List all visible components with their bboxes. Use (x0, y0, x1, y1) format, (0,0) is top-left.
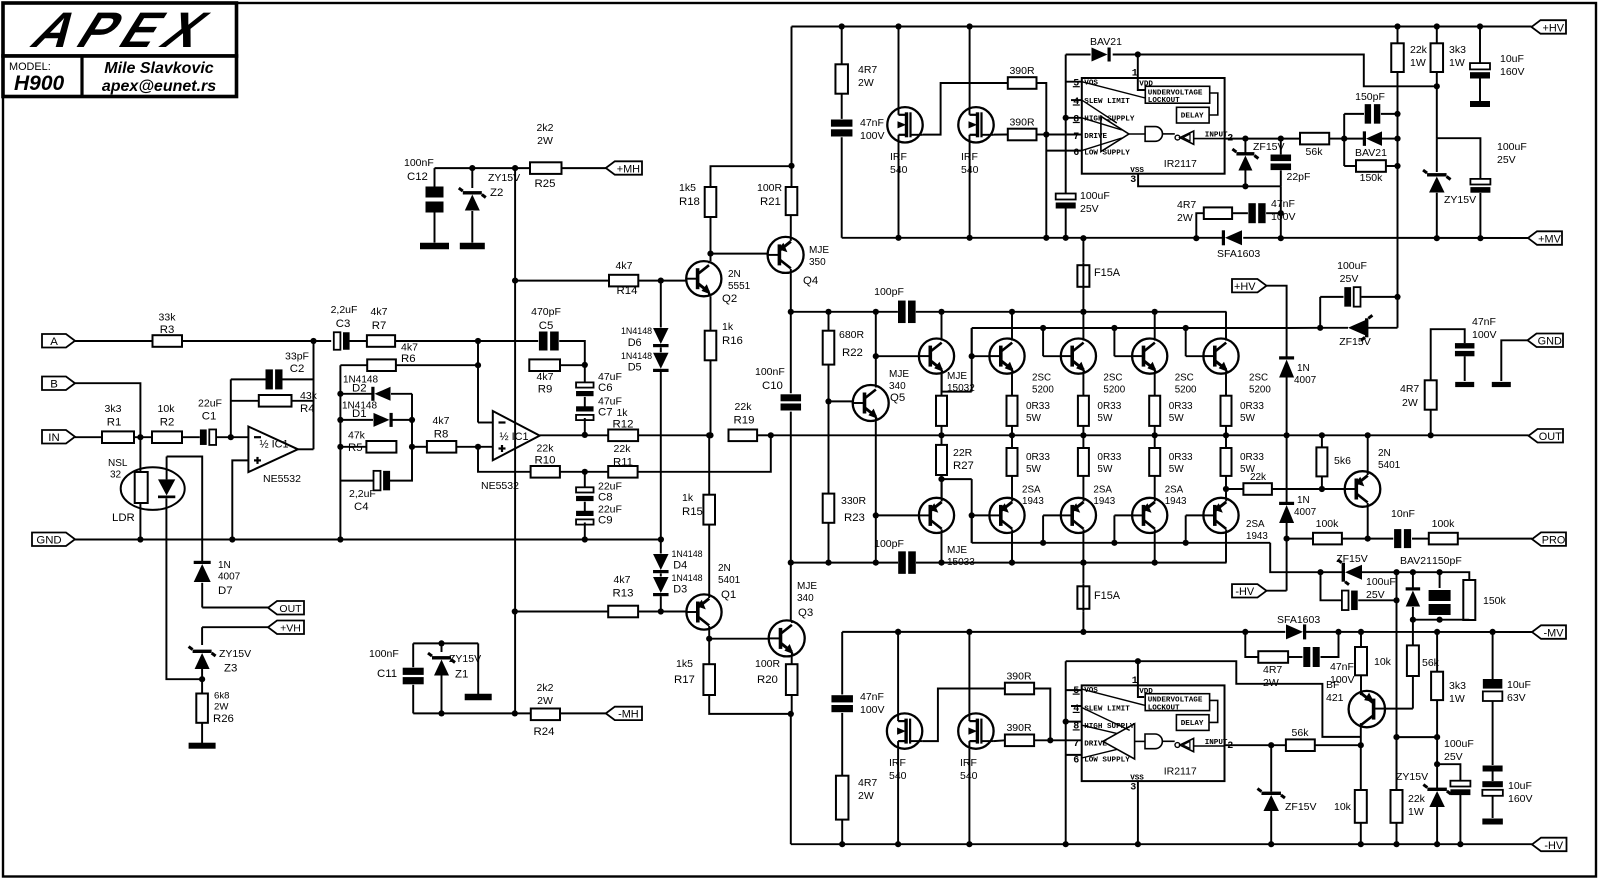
resistor R22 (823, 331, 835, 365)
node 47nF-col upper (1278, 210, 1284, 216)
svg-text:4k7: 4k7 (616, 260, 633, 272)
svg-text:5W: 5W (1097, 464, 1113, 475)
wire Q5 base (829, 400, 854, 402)
wire 4R7 top (1431, 329, 1465, 380)
capacitor C3 (334, 332, 350, 350)
wire +HV rail (792, 26, 1532, 28)
label D2 (343, 375, 378, 395)
svg-text:47nF: 47nF (860, 117, 884, 129)
label 47nF lower-left (860, 691, 885, 716)
svg-text:10uF: 10uF (1500, 53, 1524, 65)
wire Q4 base (711, 253, 768, 255)
node 150pl bottom (1437, 617, 1443, 623)
svg-text:UNDERVOLTAGE: UNDERVOLTAGE (1148, 697, 1203, 705)
label IC1a (259, 439, 288, 451)
svg-text:2N: 2N (1378, 448, 1391, 459)
node bigvert R14 (512, 278, 518, 284)
node pin1 upper (1135, 51, 1141, 57)
wire zf-vss (1244, 171, 1246, 187)
svg-text:390R: 390R (1009, 117, 1035, 129)
label C1 (198, 398, 222, 423)
wire 2SC base rail (972, 327, 1186, 329)
wire Q4 collector (790, 273, 792, 393)
diode D7 (194, 561, 211, 608)
svg-text:apex@eunet.rs: apex@eunet.rs (102, 78, 216, 95)
wire MJE15033 base (876, 514, 919, 516)
wire M3 gate (922, 689, 1005, 742)
end terminal 10uF63 (1483, 766, 1503, 772)
svg-text:1N4148: 1N4148 (621, 326, 652, 336)
svg-text:5200: 5200 (1103, 385, 1125, 396)
label NSL 32 (108, 458, 128, 481)
wire R14 left (515, 280, 609, 282)
label 22k 1W lower (1408, 793, 1426, 818)
wire R20 bottom (791, 695, 793, 714)
end terminal 47nF (1455, 382, 1474, 387)
wire R17 top (708, 639, 710, 665)
label 10uF 160V upper (1500, 53, 1525, 78)
node BF421C-input2 (1358, 742, 1364, 748)
node GND-LDR (137, 536, 143, 542)
wire 100uF mid wire (1320, 296, 1397, 298)
wire 10uF160 bottom (1479, 78, 1481, 101)
svg-text:1W: 1W (1408, 806, 1424, 818)
node Q1C-Q3B (706, 636, 712, 642)
svg-text:2SC: 2SC (1032, 373, 1051, 384)
label 0R33 upper col2 (1026, 401, 1050, 424)
label Q5 (889, 369, 909, 404)
svg-text:1N: 1N (1297, 495, 1310, 506)
wire base jog 2SC #4 (1186, 328, 1204, 356)
terminal +HV mid (1232, 279, 1267, 293)
wire collector col1 (941, 312, 943, 339)
node lower rail col1 (938, 560, 944, 566)
label 150k upper (1360, 172, 1384, 184)
node zy -HV (1434, 841, 1440, 847)
lower pin number 1 (1132, 676, 1138, 687)
wire -HV rail (791, 843, 1532, 845)
node ext-100uF (1317, 325, 1323, 331)
wire 4R7-47nF lower (1288, 656, 1302, 658)
node rail312-R22 (825, 309, 831, 315)
zener ZY15V bottom (1423, 785, 1451, 845)
svg-text:5: 5 (1073, 79, 1079, 90)
svg-text:8: 8 (1073, 722, 1079, 733)
label 390R #3 (1006, 671, 1032, 683)
svg-text:4007: 4007 (218, 572, 241, 583)
svg-text:SLEW LIMIT: SLEW LIMIT (1084, 705, 1130, 713)
wire 10uF63 stub (1492, 701, 1494, 765)
wire +MV rail right (1243, 237, 1528, 239)
wire 150p-150k (1440, 572, 1470, 580)
resistor R25 (530, 162, 562, 174)
wire VSS upper (1138, 174, 1281, 187)
transistor MJE15032 (919, 339, 954, 374)
svg-text:1W: 1W (1449, 57, 1465, 69)
svg-text:C9: C9 (598, 515, 613, 527)
end terminal GND right (1492, 382, 1511, 387)
wire baserail ext lower (1270, 543, 1320, 572)
svg-text:R20: R20 (757, 674, 778, 686)
wire pin5 lower (1066, 689, 1082, 691)
svg-text:BAV21: BAV21 (1400, 555, 1432, 567)
wire M3 drain (897, 632, 899, 714)
svg-text:100V: 100V (860, 130, 885, 142)
wire PRO right (1458, 538, 1532, 540)
svg-text:5W: 5W (1026, 413, 1042, 424)
resistor R14 (609, 275, 638, 287)
wire base jog 2SA #1 (972, 515, 990, 542)
wire INPUT2 lower (1225, 744, 1286, 746)
resistor R10 (531, 466, 560, 478)
svg-text:ZF15V: ZF15V (1339, 336, 1371, 348)
upper pin number 3 (1130, 175, 1136, 186)
capacitor C10 (781, 394, 802, 410)
svg-text:150pF: 150pF (1355, 91, 1385, 103)
node drive-MV (1043, 235, 1049, 241)
wire bracket lower (1065, 661, 1067, 844)
label 0R33 upper col3 (1097, 401, 1121, 424)
svg-text:D2: D2 (352, 383, 367, 395)
diode D1 (374, 413, 393, 427)
svg-text:5551: 5551 (728, 281, 751, 292)
fuse F15A upper (1077, 238, 1089, 312)
node base rail #2 (1040, 325, 1046, 331)
svg-text:R10: R10 (535, 455, 556, 467)
svg-text:1k5: 1k5 (676, 658, 693, 670)
wire 5k6 top (1321, 435, 1323, 447)
node zfll -HV (1268, 841, 1274, 847)
svg-text:C7: C7 (598, 407, 613, 419)
svg-text:10k: 10k (158, 403, 176, 415)
svg-text:10uF: 10uF (1507, 679, 1531, 691)
svg-text:NE5532: NE5532 (263, 473, 301, 485)
svg-text:47nF: 47nF (1472, 316, 1496, 328)
svg-text:150pF: 150pF (1432, 555, 1462, 567)
node R6-minusIC1b (475, 362, 481, 368)
svg-text:0R33: 0R33 (1026, 401, 1050, 412)
svg-text:56k: 56k (1292, 727, 1310, 739)
node lower rail col4 (1152, 560, 1158, 566)
svg-text:15033: 15033 (947, 557, 975, 568)
wire 4R7-47nF (841, 94, 843, 119)
resistor R9 (529, 359, 560, 371)
wire R4 right (292, 400, 314, 402)
svg-text:2W: 2W (537, 135, 553, 147)
wire OUT rail (771, 434, 1529, 436)
terminal OUT left (268, 601, 304, 615)
wire R6 left rail (339, 365, 341, 539)
svg-text:2,2uF: 2,2uF (331, 304, 358, 316)
resistor 0R33 upper col2 (1007, 396, 1018, 426)
lower pin number 2 (1227, 741, 1233, 752)
wire M3 source (897, 749, 899, 844)
svg-text:R9: R9 (538, 384, 553, 396)
node 22kcoll-100uFl (1393, 597, 1399, 603)
wire PRO mid3 (1412, 538, 1429, 540)
wire R15-OUT (708, 435, 710, 494)
upper pin text HIGH SUPPLY (1084, 116, 1135, 124)
node base Q2 chain (658, 278, 664, 284)
wire PRO left (1287, 538, 1313, 540)
label IRF540 #2 (961, 151, 979, 176)
svg-text:150k: 150k (1360, 172, 1384, 184)
wire IC1a plus input (232, 460, 248, 539)
label F15A upper (1094, 267, 1121, 279)
wire collector col4 (1154, 312, 1156, 339)
label C4 (349, 488, 376, 513)
svg-text:1: 1 (1132, 676, 1138, 687)
label 10k lower a (1374, 656, 1392, 668)
upper pin number 5 (1073, 79, 1080, 90)
wire collector col2 (1011, 312, 1013, 339)
svg-text:100nF: 100nF (755, 366, 785, 378)
wire zf mid wires (1320, 327, 1397, 329)
wire 3k3l top (1436, 632, 1438, 672)
svg-text:2k2: 2k2 (537, 122, 554, 134)
resistor R15 (703, 495, 715, 525)
node Q5C-15032B (873, 353, 879, 359)
node 22k-BAV21 (1394, 136, 1400, 142)
svg-text:1943: 1943 (1093, 496, 1115, 507)
node HVrail-10uF (1477, 23, 1483, 29)
lower AND gate (1145, 734, 1175, 749)
svg-text:0R33: 0R33 (1240, 401, 1264, 412)
node Z1 bottom (438, 710, 444, 716)
label Q1 (718, 563, 741, 601)
wire pin8 lower (1066, 721, 1082, 723)
upper pin text VDD (1139, 81, 1153, 89)
terminal OUT right (1529, 429, 1564, 443)
wire C4 right (390, 394, 412, 481)
diode BAV21 upper net (1363, 131, 1382, 146)
resistor R16 (705, 331, 717, 361)
label R11 (613, 443, 633, 469)
wire drive drop (1045, 135, 1047, 238)
label BAV21 upper net (1355, 147, 1387, 159)
svg-text:F15A: F15A (1094, 590, 1121, 602)
resistor R18 (705, 187, 717, 217)
capacitor C12 (426, 168, 444, 243)
wire M1 gate (923, 83, 1008, 135)
svg-text:1: 1 (1132, 69, 1138, 80)
title text MODEL: (9, 61, 51, 73)
svg-text:C10: C10 (762, 380, 783, 392)
label R2 (158, 403, 176, 429)
label 0R33 upper col4 (1169, 401, 1193, 424)
wire parallel left riser (1343, 114, 1345, 166)
node IN-B (137, 434, 143, 440)
svg-text:25V: 25V (1444, 751, 1463, 763)
svg-text:Z2: Z2 (490, 187, 503, 199)
wire left drop to -HV (790, 714, 792, 844)
upper pin number 8 (1073, 114, 1080, 125)
title text Mile Slavkovic (104, 60, 213, 77)
label 2SA1943 #2 (1093, 485, 1115, 508)
label IC1b (499, 431, 528, 443)
upper pin text DRIVE (1084, 133, 1107, 141)
wire OUT-0R33l col5 (1225, 435, 1227, 448)
wire 22k right (1272, 488, 1322, 490)
diode D2 (371, 387, 390, 401)
svg-text:IN: IN (48, 432, 59, 444)
label C6 (598, 371, 622, 394)
label 2N5401 prot (1378, 448, 1401, 471)
node Z3-LED (199, 676, 205, 682)
wire GND right (1501, 340, 1527, 381)
label R7 (371, 306, 388, 332)
node OUT-4R7 (1428, 432, 1434, 438)
svg-text:25V: 25V (1080, 203, 1099, 215)
svg-text:D5: D5 (628, 362, 642, 374)
label 150k lower (1483, 595, 1507, 607)
svg-text:22uF: 22uF (198, 398, 222, 410)
wire rail312 left (791, 311, 898, 313)
svg-text:100nF: 100nF (404, 157, 434, 169)
node bigvert -MH (512, 710, 518, 716)
capacitor 47nF lower-left (831, 695, 853, 712)
svg-text:4: 4 (1073, 97, 1079, 108)
svg-text:0R33: 0R33 (1097, 401, 1121, 412)
svg-text:ZY15V: ZY15V (1444, 194, 1476, 206)
svg-text:340: 340 (889, 381, 906, 392)
svg-text:4k7: 4k7 (371, 306, 388, 318)
node Q5 base (825, 398, 831, 404)
svg-text:INPUT: INPUT (1205, 132, 1228, 140)
svg-text:6k8: 6k8 (214, 691, 229, 702)
svg-text:R13: R13 (613, 588, 634, 600)
wire 2SC emitter col1 (941, 374, 943, 396)
wire IC1a output (298, 448, 314, 450)
svg-text:1N4148: 1N4148 (672, 549, 703, 559)
transistor 2N5401 protection (1345, 471, 1381, 507)
svg-text:1943: 1943 (1246, 531, 1268, 542)
label 2SC5200 #1 (1032, 373, 1054, 396)
wire 2SA collector col2 (1011, 533, 1013, 563)
wire base jog 2SC #3 (1114, 328, 1132, 356)
svg-text:GND: GND (1538, 336, 1562, 348)
label 1N4007 clamp lower (1294, 495, 1317, 518)
resistor R26 (196, 694, 208, 723)
diode BAV21 bootstrap (1092, 48, 1111, 62)
wire 4R7 branch upper (1196, 213, 1204, 238)
diode SFA1603 lower (1286, 624, 1306, 639)
capacitor 47nF upper-right (1248, 203, 1265, 223)
label 2SA1943 #3 (1165, 485, 1187, 508)
svg-text:R14: R14 (617, 285, 638, 297)
svg-text:SFA1603: SFA1603 (1277, 614, 1320, 626)
capacitor C1 (200, 429, 216, 445)
wire BAV21 rail to right (1138, 55, 1437, 87)
terminal PRO (1532, 532, 1566, 546)
node rail-D1 (337, 417, 343, 423)
node base rail lower #4 (1183, 540, 1189, 546)
label 3k3 lower (1449, 680, 1466, 705)
svg-text:5200: 5200 (1032, 385, 1054, 396)
svg-text:LDR: LDR (112, 512, 135, 524)
wire minus riser (477, 341, 479, 423)
node -MV 10uF63 (1490, 629, 1496, 635)
capacitor C7 (576, 397, 594, 435)
resistor R6 (367, 359, 396, 371)
label 0R33 upper col5 (1240, 401, 1264, 424)
label R3 (159, 312, 177, 337)
wire 4R7-47nF upper-right (1232, 212, 1248, 214)
node 10kb -HV (1358, 841, 1364, 847)
node -MV 10k (1358, 629, 1364, 635)
title text apex@eunet.rs (102, 78, 216, 95)
node base rail lower #2 (1040, 540, 1046, 546)
lower lockout-delay bracket (1209, 700, 1218, 722)
svg-text:22k: 22k (1250, 472, 1267, 483)
svg-text:33k: 33k (159, 312, 177, 324)
wire 0R33l-2SA col1 (941, 476, 943, 498)
node 3k3l-wire737 (1434, 734, 1440, 740)
label R6 (401, 342, 418, 366)
node 4R7 -HV (839, 841, 845, 847)
svg-text:BAV21: BAV21 (1090, 36, 1122, 48)
wire D-chain upper (660, 281, 662, 328)
svg-text:R12: R12 (613, 419, 634, 431)
resistor 390R #2 (1008, 129, 1037, 141)
svg-text:3k3: 3k3 (105, 403, 122, 415)
label 47nF upper-left (860, 117, 885, 142)
wire 2SC emitter col2 (1011, 374, 1013, 396)
svg-text:390R: 390R (1006, 722, 1032, 734)
wire OUT-0R33l col4 (1154, 435, 1156, 448)
label 2SC5200 #4 (1249, 373, 1271, 396)
wire R22 top (828, 312, 830, 331)
label IRF540 #1 (890, 151, 908, 176)
svg-text:4R7: 4R7 (1263, 664, 1282, 676)
resistor 4R7 lower-right (1258, 651, 1288, 663)
node R9-C6 (582, 362, 588, 368)
op-amp IC1b (493, 411, 540, 460)
svg-text:H900: H900 (14, 72, 65, 95)
wire clamp mid1 (1286, 378, 1288, 436)
wire Qp collector (1367, 507, 1369, 539)
svg-text:340: 340 (797, 593, 814, 604)
IC1b minus sign (499, 421, 506, 423)
svg-text:SFA1603: SFA1603 (1217, 248, 1260, 260)
wire pin4 lower stub (1071, 705, 1082, 707)
wire C3-R7 (349, 340, 367, 342)
node lower rail col2 (1009, 560, 1015, 566)
svg-text:22R: 22R (953, 447, 973, 459)
zener ZF15V lower-left (1257, 745, 1285, 844)
lower pin text DRIVE (1084, 740, 1107, 748)
svg-text:1N: 1N (218, 560, 231, 571)
upper pin number 1 (1132, 69, 1138, 80)
resistor 56k lower a (1407, 645, 1419, 676)
svg-text:ZF15V: ZF15V (1253, 141, 1285, 153)
label C5 (531, 306, 561, 332)
svg-text:R27: R27 (953, 460, 974, 472)
svg-text:R23: R23 (844, 512, 865, 524)
transistor Q4 (768, 237, 804, 273)
svg-text:3: 3 (1130, 175, 1136, 186)
wire 22k down (1397, 72, 1399, 328)
svg-text:1N4148: 1N4148 (621, 351, 652, 361)
wire 2SA base rail (972, 542, 1270, 544)
wire pin7 upper (1046, 134, 1082, 136)
node F15A-rail (1080, 309, 1086, 315)
label 3k3 1W upper (1449, 44, 1466, 69)
svg-text:10k: 10k (1334, 801, 1352, 813)
mosfet IRF540 #1 (887, 107, 922, 142)
node M3 top (895, 629, 901, 635)
node R27-15033jog (938, 476, 944, 482)
